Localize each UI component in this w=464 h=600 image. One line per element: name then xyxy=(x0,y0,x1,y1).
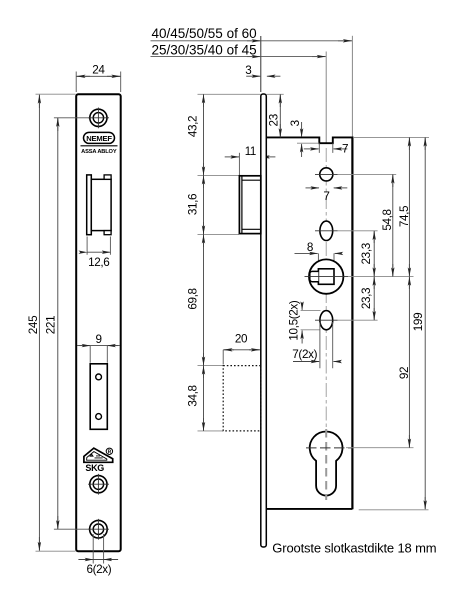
extension cylinder centre to 92 xyxy=(346,447,414,449)
svg-text:10,5(2x): 10,5(2x) xyxy=(287,300,300,341)
ASSA ABLOY rule xyxy=(81,145,118,147)
dim 10,5 extension bottom xyxy=(301,329,320,331)
hole 7mm centre mark xyxy=(315,173,338,175)
dim 9 extension lines xyxy=(90,346,107,363)
svg-text:R: R xyxy=(108,449,112,455)
cover plate hole 1 xyxy=(96,374,102,380)
spindle centre mark xyxy=(305,276,349,278)
dim 24 extension lines xyxy=(76,72,121,93)
dim 3 notch depth arrows xyxy=(301,122,303,137)
latch cutout bottom tab xyxy=(104,231,111,235)
dim 10,5 extension top xyxy=(301,310,321,312)
vertical centre line through holes xyxy=(325,148,327,428)
dim 6(2x) extension lines xyxy=(93,534,103,564)
faceplate side view strip xyxy=(261,94,267,547)
dim 245 extension top xyxy=(36,93,76,95)
dim 23 extension line xyxy=(266,93,283,95)
svg-text:9: 9 xyxy=(96,333,102,346)
svg-text:SKG: SKG xyxy=(85,463,104,473)
latch bolt face line xyxy=(241,176,243,234)
faceplate front view outline xyxy=(76,94,121,551)
svg-text:20: 20 xyxy=(235,333,248,346)
oval upper centre mark xyxy=(315,230,338,232)
svg-text:NEMEF: NEMEF xyxy=(86,134,112,143)
dim 9 line xyxy=(77,345,120,347)
dim 7 notch line arrows xyxy=(304,148,319,150)
svg-text:Grootste slotkastdikte 18 m: Grootste slotkastdikte 18 mm xyxy=(272,541,436,556)
cylinder centre mark xyxy=(306,447,353,449)
dim 7(2x) line arrows xyxy=(293,361,319,363)
chained dim line 43,2/31,6/69,8/34,8 xyxy=(203,94,205,431)
svg-text:23,3: 23,3 xyxy=(360,243,373,264)
extension oval upper centre to 23,3 xyxy=(338,230,378,232)
dim 8 extension lines xyxy=(318,253,334,267)
svg-text:74,5: 74,5 xyxy=(398,205,411,227)
dim 12,6 extension lines xyxy=(87,237,110,255)
dim 11 extension line xyxy=(238,153,240,175)
latch bolt side view xyxy=(239,176,260,234)
dim 23 line xyxy=(279,94,281,137)
oval hole upper xyxy=(320,221,333,240)
svg-text:221: 221 xyxy=(45,316,58,334)
svg-text:24: 24 xyxy=(92,64,105,77)
SKG logo xyxy=(84,448,113,462)
top screw hole outer xyxy=(90,109,107,126)
svg-text:7(2x): 7(2x) xyxy=(292,348,317,361)
cover plate xyxy=(90,364,107,430)
dim 245 line xyxy=(38,95,40,551)
dim 54,8 line xyxy=(392,174,394,276)
backset reference extension line xyxy=(260,36,262,92)
bottom screw hole outer xyxy=(90,520,108,538)
svg-text:69,8: 69,8 xyxy=(187,288,200,309)
option dim line of 45 xyxy=(151,56,326,58)
middle screw hole outer xyxy=(90,476,107,493)
latch cutout top tab xyxy=(104,175,111,179)
svg-text:11: 11 xyxy=(245,146,256,158)
dim 11 arrows xyxy=(225,156,239,158)
dim 24 line xyxy=(76,75,121,77)
top screw hole center marks xyxy=(88,108,109,129)
spindle square left tab xyxy=(310,271,319,281)
chained dim extension y234.4 xyxy=(198,233,240,235)
dim 199 line xyxy=(424,137,426,509)
dim 3 faceplate thickness arrows xyxy=(246,75,260,77)
svg-text:23,3: 23,3 xyxy=(360,288,373,309)
middle screw hole inner xyxy=(93,479,103,489)
spindle square hole xyxy=(318,269,334,285)
svg-text:245: 245 xyxy=(27,315,40,334)
notch bottom extension line xyxy=(297,142,319,144)
hole 7mm circle xyxy=(320,168,333,181)
svg-text:23: 23 xyxy=(267,114,280,126)
top screw hole inner xyxy=(93,113,103,123)
svg-text:12,6: 12,6 xyxy=(88,256,109,269)
dim 7 notch extension lines xyxy=(319,143,333,153)
dim 245 extension bottom xyxy=(36,550,76,552)
dim 92 line xyxy=(408,277,410,448)
dim 23,3 lower line xyxy=(373,277,375,321)
dim 20 line xyxy=(223,349,260,351)
svg-text:43,2: 43,2 xyxy=(187,116,200,137)
svg-text:3: 3 xyxy=(245,64,251,77)
svg-text:6(2x): 6(2x) xyxy=(86,563,111,576)
svg-text:54,8: 54,8 xyxy=(381,209,394,230)
chained dim extension y175.4 xyxy=(198,174,240,176)
extension case top to 199 xyxy=(354,136,429,138)
middle screw hole center marks xyxy=(88,474,109,495)
extension case bottom to 199 xyxy=(359,509,429,511)
NEMEF logo stadium xyxy=(84,132,115,143)
dim 10,5 arrows xyxy=(301,303,303,310)
lock case bottom edge xyxy=(266,508,352,510)
chained dim extension y430.9 xyxy=(198,430,223,432)
dim 221 pointer bottom xyxy=(54,528,89,530)
latch bolt inner top line xyxy=(242,179,261,181)
dim 7(2x) extension lines xyxy=(320,322,333,368)
extension oval lower centre to 23,3 xyxy=(338,319,378,321)
latch cutout body xyxy=(91,179,111,230)
cylinder vertical centre line xyxy=(325,429,327,500)
dim 12,6 line xyxy=(87,251,110,253)
svg-text:7: 7 xyxy=(342,143,348,156)
chained dim extension y365.6 xyxy=(198,365,223,367)
bottom screw hole inner xyxy=(93,524,103,534)
svg-text:7: 7 xyxy=(323,190,329,203)
svg-text:34,8: 34,8 xyxy=(187,385,200,406)
svg-text:25/30/35/40 of 45: 25/30/35/40 of 45 xyxy=(152,43,257,58)
SKG logo registered mark xyxy=(106,448,112,454)
case right edge extension line xyxy=(351,36,353,137)
dim 7 hole arrows xyxy=(306,187,320,189)
dim 6(2x) arrows xyxy=(81,559,93,561)
dim 221 line xyxy=(57,118,59,529)
dim 8 line arrows xyxy=(295,252,318,254)
dim 23,3 upper line xyxy=(373,231,375,277)
oval hole lower xyxy=(320,311,333,330)
deadbolt hidden rect xyxy=(223,366,261,431)
cover plate hole 2 xyxy=(96,414,102,420)
dim 221 pointer top xyxy=(54,117,89,119)
svg-text:31,6: 31,6 xyxy=(187,194,200,215)
dim 20 extension line xyxy=(222,350,224,365)
spindle hub circle xyxy=(309,259,343,293)
spindle axis extension line xyxy=(325,52,327,144)
svg-text:40/45/50/55 of 60: 40/45/50/55 of 60 xyxy=(152,26,257,41)
chained dim extension y94.3 xyxy=(198,93,261,95)
svg-text:199: 199 xyxy=(412,313,425,331)
lock case right edge xyxy=(351,137,353,510)
svg-text:92: 92 xyxy=(398,367,411,379)
option dim line of 60 xyxy=(151,40,353,42)
lock case top edge with notch xyxy=(266,137,352,143)
extension hole7 centre to 54,8 xyxy=(338,173,397,175)
extension spindle centre to 92/74,5 xyxy=(348,276,414,278)
bottom screw hole center marks xyxy=(88,519,109,540)
latch cutout left bar xyxy=(87,175,92,235)
svg-text:ASSA ABLOY: ASSA ABLOY xyxy=(81,149,117,155)
dim 9 arrows xyxy=(80,345,91,347)
svg-text:8: 8 xyxy=(307,241,313,254)
svg-text:3: 3 xyxy=(289,120,302,126)
euro cylinder hole xyxy=(310,432,343,496)
dim 6(2x) line xyxy=(78,559,118,561)
dim 74,5 line xyxy=(408,137,410,276)
oval lower centre mark xyxy=(315,319,338,321)
latch bolt inner bottom line xyxy=(242,228,261,230)
